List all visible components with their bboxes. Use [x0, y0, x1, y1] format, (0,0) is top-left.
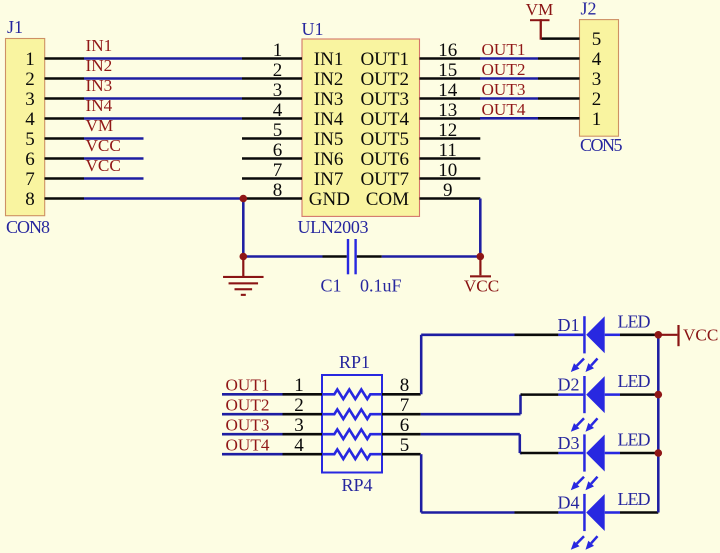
- svg-text:OUT3: OUT3: [226, 416, 270, 435]
- svg-text:IN3: IN3: [86, 76, 113, 95]
- svg-text:ULN2003: ULN2003: [298, 217, 369, 237]
- svg-text:OUT3: OUT3: [360, 89, 409, 110]
- svg-text:VM: VM: [86, 116, 114, 135]
- svg-text:OUT4: OUT4: [360, 109, 409, 130]
- svg-text:LED: LED: [618, 430, 651, 450]
- svg-text:3: 3: [592, 69, 602, 90]
- svg-text:IN2: IN2: [86, 56, 113, 75]
- svg-text:8: 8: [273, 180, 283, 201]
- svg-text:13: 13: [438, 100, 457, 121]
- svg-text:OUT5: OUT5: [360, 129, 409, 150]
- svg-text:16: 16: [438, 40, 457, 61]
- svg-text:LED: LED: [618, 371, 651, 391]
- svg-text:11: 11: [439, 140, 457, 161]
- svg-text:OUT2: OUT2: [226, 396, 270, 415]
- svg-text:0.1uF: 0.1uF: [360, 276, 402, 296]
- svg-text:J1: J1: [7, 17, 23, 37]
- svg-text:LED: LED: [618, 311, 651, 331]
- svg-text:12: 12: [438, 120, 457, 141]
- svg-text:6: 6: [273, 140, 283, 161]
- svg-text:4: 4: [294, 435, 304, 456]
- svg-text:VM: VM: [526, 0, 554, 19]
- svg-text:OUT2: OUT2: [360, 69, 409, 90]
- svg-text:3: 3: [294, 415, 304, 436]
- svg-text:7: 7: [400, 395, 410, 416]
- svg-text:OUT7: OUT7: [360, 169, 409, 190]
- svg-text:RP4: RP4: [341, 475, 372, 495]
- svg-text:IN6: IN6: [314, 149, 344, 170]
- svg-text:IN4: IN4: [314, 109, 344, 130]
- svg-text:14: 14: [438, 80, 458, 101]
- svg-text:OUT1: OUT1: [482, 40, 526, 59]
- svg-text:IN3: IN3: [314, 89, 344, 110]
- svg-text:1: 1: [273, 40, 283, 61]
- svg-text:J2: J2: [581, 0, 597, 19]
- svg-text:5: 5: [273, 120, 283, 141]
- svg-text:VCC: VCC: [464, 276, 499, 295]
- svg-text:C1: C1: [321, 276, 342, 296]
- svg-text:8: 8: [400, 375, 410, 396]
- svg-text:2: 2: [25, 69, 35, 90]
- svg-text:IN7: IN7: [314, 169, 344, 190]
- svg-text:CON8: CON8: [6, 217, 50, 237]
- svg-text:4: 4: [592, 49, 602, 70]
- svg-text:VCC: VCC: [683, 326, 718, 345]
- svg-text:CON5: CON5: [580, 135, 623, 155]
- svg-text:D3: D3: [558, 433, 580, 453]
- svg-text:IN5: IN5: [314, 129, 344, 150]
- svg-text:IN1: IN1: [314, 49, 344, 70]
- svg-text:COM: COM: [366, 189, 409, 210]
- svg-text:OUT1: OUT1: [226, 376, 270, 395]
- svg-text:6: 6: [25, 149, 35, 170]
- svg-text:2: 2: [294, 395, 304, 416]
- svg-text:2: 2: [273, 60, 283, 81]
- svg-text:1: 1: [592, 109, 602, 130]
- svg-text:3: 3: [25, 89, 35, 110]
- svg-text:1: 1: [25, 49, 35, 70]
- svg-text:9: 9: [443, 180, 453, 201]
- svg-text:U1: U1: [302, 19, 324, 39]
- svg-text:RP1: RP1: [339, 352, 370, 372]
- svg-text:8: 8: [25, 189, 35, 210]
- svg-text:5: 5: [25, 129, 35, 150]
- svg-text:6: 6: [400, 415, 410, 436]
- svg-text:7: 7: [25, 169, 35, 190]
- svg-text:LED: LED: [618, 489, 651, 509]
- svg-text:IN4: IN4: [86, 96, 113, 115]
- svg-text:IN2: IN2: [314, 69, 344, 90]
- svg-text:IN1: IN1: [86, 36, 113, 55]
- svg-text:1: 1: [294, 375, 304, 396]
- svg-text:OUT4: OUT4: [482, 100, 526, 119]
- svg-text:7: 7: [273, 160, 283, 181]
- svg-text:2: 2: [592, 89, 602, 110]
- svg-text:OUT4: OUT4: [226, 436, 270, 455]
- svg-text:D2: D2: [558, 375, 580, 395]
- svg-text:3: 3: [273, 80, 283, 101]
- svg-text:D1: D1: [558, 315, 580, 335]
- svg-text:GND: GND: [309, 189, 350, 210]
- svg-text:D4: D4: [558, 493, 580, 513]
- svg-text:5: 5: [592, 29, 602, 50]
- svg-text:10: 10: [438, 160, 457, 181]
- svg-text:5: 5: [400, 435, 410, 456]
- svg-text:OUT3: OUT3: [482, 80, 526, 99]
- svg-text:OUT1: OUT1: [360, 49, 409, 70]
- svg-text:OUT6: OUT6: [360, 149, 409, 170]
- svg-text:VCC: VCC: [86, 156, 121, 175]
- svg-text:4: 4: [25, 109, 35, 130]
- svg-text:OUT2: OUT2: [482, 60, 526, 79]
- svg-text:15: 15: [438, 60, 457, 81]
- svg-text:VCC: VCC: [86, 136, 121, 155]
- svg-text:4: 4: [273, 100, 283, 121]
